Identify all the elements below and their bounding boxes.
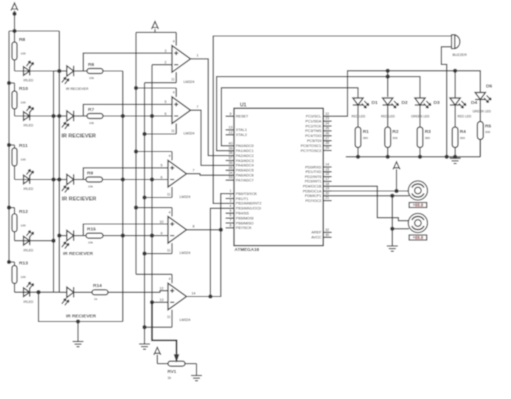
svg-text:RED LED: RED LED xyxy=(352,115,367,119)
svg-text:XTAL1: XTAL1 xyxy=(236,128,247,132)
svg-text:PA4/ADC4: PA4/ADC4 xyxy=(236,164,254,168)
svg-text:1k: 1k xyxy=(168,376,172,380)
svg-text:9: 9 xyxy=(161,231,163,235)
svg-text:37: 37 xyxy=(229,156,233,160)
svg-text:IR RECIEVER: IR RECIEVER xyxy=(63,251,94,256)
svg-text:4: 4 xyxy=(169,210,171,214)
svg-text:RESET: RESET xyxy=(236,115,249,119)
svg-text:PA1/ADC1: PA1/ADC1 xyxy=(236,149,254,153)
svg-text:12: 12 xyxy=(160,287,164,291)
svg-text:LM324: LM324 xyxy=(180,318,191,322)
svg-text:10k: 10k xyxy=(88,184,93,188)
svg-text:IRLED: IRLED xyxy=(23,300,34,304)
svg-text:D1: D1 xyxy=(372,100,378,106)
svg-text:PC2/TCK: PC2/TCK xyxy=(306,124,322,128)
svg-text:R13: R13 xyxy=(19,261,28,267)
svg-text:R3: R3 xyxy=(425,129,431,135)
svg-text:LM324: LM324 xyxy=(184,80,195,84)
svg-text:R12: R12 xyxy=(19,209,28,215)
svg-text:11: 11 xyxy=(171,129,175,133)
svg-text:PA5/ADC5: PA5/ADC5 xyxy=(236,169,254,173)
svg-text:26: 26 xyxy=(325,131,329,135)
svg-text:16: 16 xyxy=(325,172,329,176)
svg-text:PD7/OC2: PD7/OC2 xyxy=(305,199,321,203)
svg-text:R2: R2 xyxy=(392,129,398,135)
svg-text:23: 23 xyxy=(325,117,329,121)
svg-text:RV1: RV1 xyxy=(168,369,177,374)
svg-text:7: 7 xyxy=(230,219,232,223)
svg-text:PA0/ADC0: PA0/ADC0 xyxy=(236,144,254,148)
svg-text:PD1/TXD: PD1/TXD xyxy=(306,170,322,174)
svg-text:D2: D2 xyxy=(402,100,408,106)
svg-text:32: 32 xyxy=(325,228,329,232)
svg-text:R6: R6 xyxy=(88,62,94,68)
svg-text:+88.8: +88.8 xyxy=(413,203,424,208)
svg-text:3: 3 xyxy=(165,49,167,53)
svg-text:RED LED: RED LED xyxy=(458,115,473,119)
svg-text:24: 24 xyxy=(325,122,329,126)
svg-text:D5: D5 xyxy=(486,84,492,90)
svg-text:PD5/OC1A: PD5/OC1A xyxy=(303,189,322,193)
svg-text:1: 1 xyxy=(230,189,232,193)
svg-text:GREEN LED: GREEN LED xyxy=(473,110,492,114)
svg-text:25: 25 xyxy=(325,127,329,131)
svg-text:PC3/TMS: PC3/TMS xyxy=(305,129,322,133)
svg-text:PB6/MISO: PB6/MISO xyxy=(236,221,254,225)
svg-text:LM324: LM324 xyxy=(184,132,195,136)
svg-text:18: 18 xyxy=(325,182,329,186)
svg-text:4: 4 xyxy=(173,39,175,43)
svg-text:PC0/SCL: PC0/SCL xyxy=(306,115,322,119)
svg-text:14: 14 xyxy=(325,163,329,167)
svg-text:PC5/TDI: PC5/TDI xyxy=(307,139,321,143)
svg-text:22: 22 xyxy=(325,112,329,116)
svg-text:R1: R1 xyxy=(363,129,369,135)
svg-text:PB5/MOSI: PB5/MOSI xyxy=(236,216,254,220)
svg-text:PC4/TDO: PC4/TDO xyxy=(305,134,321,138)
svg-text:R4: R4 xyxy=(460,129,466,135)
svg-text:20: 20 xyxy=(325,191,329,195)
svg-text:5: 5 xyxy=(161,164,163,168)
svg-text:PB4/SS: PB4/SS xyxy=(236,212,250,216)
svg-text:40: 40 xyxy=(229,141,233,145)
svg-text:11: 11 xyxy=(171,78,175,82)
svg-text:PD0/RXD: PD0/RXD xyxy=(305,165,322,169)
svg-text:PB3/AIN1/OC0: PB3/AIN1/OC0 xyxy=(236,207,261,211)
svg-text:AVCC: AVCC xyxy=(311,236,321,240)
svg-text:39: 39 xyxy=(229,146,233,150)
svg-text:3: 3 xyxy=(230,199,232,203)
svg-text:PD4/OC1B: PD4/OC1B xyxy=(303,185,322,189)
svg-text:14: 14 xyxy=(192,291,196,295)
svg-text:4: 4 xyxy=(173,91,175,95)
svg-text:8: 8 xyxy=(193,225,195,229)
svg-text:13: 13 xyxy=(229,126,233,130)
svg-text:100: 100 xyxy=(21,52,26,56)
svg-text:R15: R15 xyxy=(87,226,96,232)
svg-text:100: 100 xyxy=(21,223,26,227)
svg-text:LM324: LM324 xyxy=(180,195,191,199)
svg-text:R10: R10 xyxy=(19,86,28,92)
svg-text:PB1/T1: PB1/T1 xyxy=(236,197,249,201)
svg-text:34: 34 xyxy=(229,171,233,175)
svg-text:300: 300 xyxy=(363,136,368,140)
svg-text:38: 38 xyxy=(229,151,233,155)
svg-text:IRLED: IRLED xyxy=(23,79,34,83)
svg-text:IR RECIEVER: IR RECIEVER xyxy=(66,87,89,91)
svg-text:IRLED: IRLED xyxy=(23,124,34,128)
svg-text:13: 13 xyxy=(160,298,164,302)
svg-text:BUZZER: BUZZER xyxy=(453,53,468,57)
svg-text:8: 8 xyxy=(230,224,232,228)
svg-text:PB0/T0/XCK: PB0/T0/XCK xyxy=(236,192,258,196)
svg-text:PC7/TOSC2: PC7/TOSC2 xyxy=(301,149,322,153)
svg-text:4: 4 xyxy=(230,204,232,208)
svg-text:29: 29 xyxy=(325,146,329,150)
svg-text:30: 30 xyxy=(325,233,329,237)
svg-text:11: 11 xyxy=(167,192,171,196)
svg-text:100: 100 xyxy=(21,158,26,162)
svg-text:12: 12 xyxy=(229,130,233,134)
svg-text:XTAL2: XTAL2 xyxy=(236,133,247,137)
svg-text:2: 2 xyxy=(230,194,232,198)
svg-text:4: 4 xyxy=(169,277,171,281)
svg-text:PA2/ADC2: PA2/ADC2 xyxy=(236,154,254,158)
svg-text:15: 15 xyxy=(325,167,329,171)
svg-text:PD6/ICP1: PD6/ICP1 xyxy=(305,194,322,198)
svg-text:300: 300 xyxy=(460,136,465,140)
svg-text:IR RECIEVER: IR RECIEVER xyxy=(62,134,97,140)
svg-text:R11: R11 xyxy=(19,143,28,149)
svg-text:IRLED: IRLED xyxy=(23,248,34,252)
svg-text:33: 33 xyxy=(229,176,233,180)
svg-text:11: 11 xyxy=(167,315,171,319)
svg-text:11: 11 xyxy=(167,248,171,252)
svg-text:10k: 10k xyxy=(88,240,93,244)
svg-text:10k: 10k xyxy=(89,121,94,125)
svg-text:IRLED: IRLED xyxy=(23,187,34,191)
svg-text:6: 6 xyxy=(230,214,232,218)
svg-text:PB2/AIN0/INT2: PB2/AIN0/INT2 xyxy=(236,202,262,206)
svg-text:100: 100 xyxy=(21,275,26,279)
svg-text:PB7/SCK: PB7/SCK xyxy=(236,226,252,230)
svg-text:1: 1 xyxy=(197,54,199,58)
svg-text:27: 27 xyxy=(325,136,329,140)
svg-text:D3: D3 xyxy=(434,100,440,106)
svg-text:6: 6 xyxy=(165,112,167,116)
svg-text:ATMEGA16: ATMEGA16 xyxy=(235,247,260,252)
svg-text:5: 5 xyxy=(165,100,167,104)
svg-text:6: 6 xyxy=(161,175,163,179)
svg-text:28: 28 xyxy=(325,141,329,145)
svg-text:PA7/ADC7: PA7/ADC7 xyxy=(236,178,254,182)
svg-text:+88.8: +88.8 xyxy=(413,235,424,240)
svg-text:35: 35 xyxy=(229,166,233,170)
svg-text:4: 4 xyxy=(169,154,171,158)
svg-text:36: 36 xyxy=(229,161,233,165)
svg-text:1k: 1k xyxy=(94,297,98,301)
svg-text:5: 5 xyxy=(230,209,232,213)
svg-text:U1: U1 xyxy=(240,103,247,109)
svg-text:7: 7 xyxy=(193,169,195,173)
svg-text:PD3/INT1: PD3/INT1 xyxy=(305,180,321,184)
svg-text:PD2/INT0: PD2/INT0 xyxy=(305,175,321,179)
svg-text:19: 19 xyxy=(325,187,329,191)
svg-text:R7: R7 xyxy=(88,107,94,113)
svg-text:17: 17 xyxy=(325,177,329,181)
svg-text:PA6/ADC6: PA6/ADC6 xyxy=(236,174,254,178)
svg-text:IR RECIEVER: IR RECIEVER xyxy=(62,196,97,202)
svg-text:IR RECIEVER: IR RECIEVER xyxy=(66,314,97,319)
svg-text:R9: R9 xyxy=(87,170,93,176)
svg-text:300: 300 xyxy=(392,136,397,140)
svg-text:AREF: AREF xyxy=(311,231,322,235)
svg-text:21: 21 xyxy=(325,196,329,200)
svg-text:100: 100 xyxy=(21,101,26,105)
svg-text:300: 300 xyxy=(485,130,490,134)
svg-text:9: 9 xyxy=(230,112,232,116)
svg-text:R14: R14 xyxy=(93,283,102,289)
svg-text:10: 10 xyxy=(160,220,164,224)
svg-text:7: 7 xyxy=(197,105,199,109)
svg-text:PC6/TOSC1: PC6/TOSC1 xyxy=(301,144,322,148)
svg-text:PA3/ADC3: PA3/ADC3 xyxy=(236,159,254,163)
svg-text:300: 300 xyxy=(425,136,430,140)
svg-text:R5: R5 xyxy=(485,124,491,130)
svg-text:D4: D4 xyxy=(471,100,477,106)
svg-text:LM324: LM324 xyxy=(180,251,191,255)
svg-text:10k: 10k xyxy=(89,76,94,80)
svg-text:R8: R8 xyxy=(19,37,26,43)
svg-text:2: 2 xyxy=(165,61,167,65)
svg-text:PC1/SDA: PC1/SDA xyxy=(305,119,322,123)
